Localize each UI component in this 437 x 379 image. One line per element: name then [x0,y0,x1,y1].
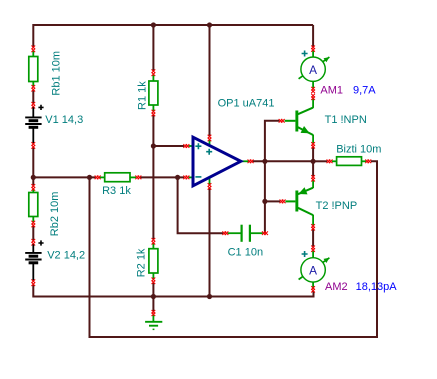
wire V2 to bottom row [33,285,153,297]
wire R1 to node B [152,115,154,146]
svg-text:V1 14,3: V1 14,3 [45,114,83,126]
wire Bizti to right rail and bottom rail [90,161,378,337]
label V2 14,2 [47,250,85,262]
wire T2 collector to AM2 [312,229,314,247]
svg-text:T2 !PNP: T2 !PNP [316,200,358,212]
resistor Rb1 [29,46,38,92]
svg-text:Rb2 10m: Rb2 10m [49,192,61,237]
svg-text:C1 10n: C1 10n [228,247,263,259]
wire node A to node C [33,176,95,178]
svg-text:A: A [309,63,317,77]
junction node C R3 left [87,175,92,180]
wire node E to C1 [178,177,224,233]
wire T2 base [265,200,280,202]
label R2 1k [136,248,148,277]
ground [145,310,162,330]
wire T1 base [265,121,280,162]
resistor Rb2 [29,184,38,227]
label V1 14,3 [45,114,83,126]
label 18,13pA [356,281,398,293]
wire bottom node to ground [152,297,154,312]
svg-text:V2 14,2: V2 14,2 [47,250,85,262]
svg-text:Bizti 10m: Bizti 10m [336,144,381,156]
junction node A left rail [31,175,36,180]
label Bizti 10m [336,144,381,156]
junction node E feedback tap [175,175,180,180]
label C1 10n [228,247,263,259]
wire node A to Rb2 [32,177,34,185]
wire Rb2 to V2 [32,226,34,241]
svg-text:18,13pA: 18,13pA [356,281,398,293]
wire node F to T2 emitter [312,161,314,176]
svg-text:OP1 uA741: OP1 uA741 [218,98,275,110]
junction node top op-amp supply [207,22,212,27]
resistor Bizti [327,157,372,166]
wire top rail [33,24,313,26]
svg-text:R3 1k: R3 1k [102,185,131,197]
wire output column mid [264,161,266,201]
battery V1 [25,102,43,149]
label Rb1 10m [50,51,62,96]
label AM2 [325,281,348,293]
wire op-amp output row [253,160,314,162]
capacitor C1 [222,225,268,242]
wire R1 column top [152,25,154,71]
label R3 1k [102,185,131,197]
wire R3 to op-amp minus input [140,176,184,178]
junction node I supply bottom [207,294,212,299]
junction node G T2 base [262,199,267,204]
op-amp OP1 [183,135,253,190]
label OP1 uA741 [218,98,275,110]
label T1 !NPN [325,114,367,126]
label 9,7A [353,85,376,97]
junction node top R1 [151,22,156,27]
junction node F emitters [311,159,316,164]
resistor R2 [149,238,158,284]
svg-text:T1 !NPN: T1 !NPN [325,114,367,126]
label Rb2 10m [49,192,61,237]
label T2 !PNP [316,200,358,212]
ammeter AM2 [299,246,330,293]
svg-text:Rb1 10m: Rb1 10m [50,51,62,96]
resistor R1 [149,69,158,116]
svg-text:9,7A: 9,7A [353,85,376,97]
transistor T1 [279,94,315,149]
svg-text:R1 1k: R1 1k [136,81,148,110]
svg-text:AM2: AM2 [325,281,348,293]
wire op-amp plus input [153,145,184,147]
wire R2 to bottom node [152,283,154,297]
wire Rb1 to V1 [32,90,34,104]
wire left rail top segment [32,24,34,47]
label AM1 [320,85,343,97]
wire op-amp V+ column [209,25,211,136]
wire node F to Bizti [313,160,327,162]
wire bottom row to AM2 [210,291,314,297]
svg-text:A: A [309,264,317,278]
label R1 1k [136,81,148,110]
battery V2 [25,239,43,286]
wire node B to R2 [152,146,154,239]
wire output column to C1 [264,201,266,233]
wire bottom row middle [153,296,209,298]
junction node B plus input [151,143,156,148]
junction node H ground row [151,294,156,299]
wire AM1 top [312,25,314,47]
junction node D op-amp output [262,159,267,164]
transistor T2 [280,175,315,230]
wire op-amp V- column [209,188,211,297]
ammeter AM1 [299,45,330,93]
svg-text:R2 1k: R2 1k [136,248,148,277]
wire T1 emitter to node F [312,147,314,161]
resistor R3 [95,173,142,182]
svg-text:AM1: AM1 [320,85,343,97]
wire V1 to node A [32,148,34,178]
